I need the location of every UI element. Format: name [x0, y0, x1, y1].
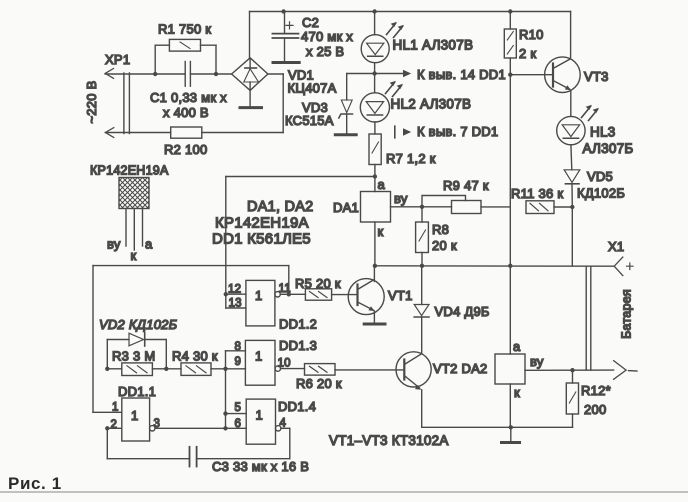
svg-text:4: 4: [280, 418, 287, 430]
node R8 rail: [420, 264, 424, 268]
wire HL1 to node: [374, 63, 376, 93]
svg-text:10: 10: [278, 358, 291, 370]
svg-text:DD1.1: DD1.1: [118, 384, 156, 399]
transistor VT2: [335, 352, 431, 428]
wire VT3 emitter to HL3: [570, 91, 572, 117]
svg-text:200: 200: [584, 402, 606, 417]
svg-text:VT3: VT3: [584, 69, 609, 84]
ground VD3: [335, 133, 356, 136]
resistor R11: [526, 201, 572, 214]
capacitor C2: [272, 12, 298, 62]
wire DA2 vy to X1: [525, 369, 614, 371]
connector X1 body lines: [586, 266, 591, 370]
wire DD1.1 pin2 to C3: [107, 428, 189, 458]
svg-text:Батарея: Батарея: [620, 289, 634, 339]
wire bottom AC line: [105, 132, 170, 134]
svg-text:ву: ву: [530, 354, 544, 369]
tap to DD1 pin14: [375, 70, 412, 77]
svg-text:VT1: VT1: [388, 288, 413, 303]
ground VT1: [364, 323, 385, 326]
node VD5 R11: [570, 205, 574, 209]
node bus pin6: [223, 426, 227, 430]
svg-text:DD1.2: DD1.2: [279, 317, 317, 332]
svg-text:к: к: [131, 248, 137, 263]
wire input bus DD1.3 DD1.4: [226, 351, 247, 429]
svg-text:R12*: R12*: [581, 383, 611, 398]
LED HL3: [557, 105, 599, 145]
resistor R10: [504, 12, 516, 75]
wire DD1.4 out to C3: [197, 428, 290, 458]
svg-text:VT1–VT3 КТ3102А: VT1–VT3 КТ3102А: [329, 433, 449, 448]
svg-text:HL3: HL3: [590, 125, 616, 140]
node a DA1: [373, 174, 377, 178]
svg-text:КР142ЕН19А: КР142ЕН19А: [90, 164, 169, 178]
gate DD1.2: [226, 280, 289, 326]
node VT3 base column: [508, 73, 512, 77]
svg-text:а: а: [378, 177, 386, 192]
wire top supply rail: [250, 11, 571, 13]
resistor R2: [171, 127, 202, 138]
diode VD2: [107, 333, 166, 369]
node R10 tap: [508, 9, 512, 13]
wire column R10 to R9R11 to rail: [509, 75, 511, 266]
shunt regulator DA1: [361, 177, 423, 266]
node R1 right: [214, 72, 218, 76]
node R4 bus: [223, 367, 227, 371]
node DD1.2 inputs: [224, 292, 228, 296]
package drawing KR142EN19A: [119, 178, 149, 251]
svg-text:6: 6: [235, 418, 242, 430]
svg-text:C2: C2: [302, 15, 319, 30]
svg-text:2: 2: [111, 419, 118, 431]
svg-text:R8: R8: [432, 222, 449, 237]
svg-text:КС515А: КС515А: [285, 113, 334, 128]
wire top AC line: [105, 73, 185, 75]
ground C2: [273, 61, 299, 64]
node R1 left: [153, 72, 157, 76]
svg-text:х 25 В: х 25 В: [306, 44, 344, 59]
svg-text:1: 1: [255, 288, 262, 303]
svg-text:АЛ307Б: АЛ307Б: [583, 141, 634, 156]
gate DD1.4: [246, 399, 290, 444]
svg-text:R9 47 к: R9 47 к: [443, 178, 489, 193]
trimmer resistor R9: [422, 196, 510, 214]
svg-text:R3 3 М: R3 3 М: [112, 349, 155, 364]
bridge rectifier VD1: [232, 58, 268, 91]
svg-text:КР142ЕН19А: КР142ЕН19А: [215, 215, 309, 232]
resistor R6: [305, 364, 336, 376]
resistor R3: [107, 363, 166, 376]
connector X1 plus contact: [614, 257, 633, 276]
svg-text:R1 750 к: R1 750 к: [158, 22, 211, 37]
svg-text:ву: ву: [394, 191, 408, 206]
svg-text:к: к: [514, 385, 520, 400]
diode VD4: [414, 266, 429, 354]
node k DA1 rail: [373, 264, 377, 268]
svg-text:9: 9: [235, 356, 242, 368]
svg-text:R5 20 к: R5 20 к: [295, 276, 341, 291]
ground DA2: [502, 427, 520, 442]
wire bottom rail: [422, 426, 573, 428]
diode VD5: [564, 145, 580, 207]
svg-text:К выв. 7 DD1: К выв. 7 DD1: [417, 124, 498, 139]
svg-text:DD1.3: DD1.3: [279, 338, 317, 353]
svg-text:R4 30 к: R4 30 к: [172, 349, 218, 364]
node DD1.1 pin2: [105, 426, 109, 430]
node column rail: [508, 264, 512, 268]
svg-text:VD5: VD5: [587, 169, 613, 184]
node DA2 k ground: [509, 425, 513, 429]
svg-text:DD1.4: DD1.4: [278, 399, 316, 414]
tap to DD1 pin7: [395, 126, 411, 138]
resistor R8: [416, 207, 429, 266]
svg-text:1: 1: [255, 349, 262, 364]
node DA1 vy R8 R9: [420, 205, 424, 209]
svg-text:R2 100: R2 100: [164, 142, 207, 157]
node bus pin5: [223, 411, 227, 415]
gate DD1.1: [107, 398, 246, 441]
svg-text:12: 12: [228, 284, 241, 296]
svg-text:С3 33 мк х 16 В: С3 33 мк х 16 В: [212, 459, 309, 474]
svg-text:1: 1: [112, 402, 119, 414]
svg-text:2 к: 2 к: [519, 46, 536, 61]
wire bottom AC to bridge: [202, 74, 283, 133]
svg-text:ву: ву: [107, 237, 121, 252]
svg-text:8: 8: [235, 341, 242, 353]
gate DD1.3: [245, 340, 304, 385]
resistor R4: [166, 363, 225, 376]
wire middle rail: [375, 265, 614, 267]
svg-text:DA1: DA1: [333, 200, 359, 215]
svg-text:а: а: [513, 339, 521, 354]
shunt regulator DA2: [495, 266, 525, 428]
LED HL2: [360, 81, 403, 122]
capacitor C1: [185, 62, 190, 87]
svg-text:R10: R10: [519, 27, 544, 42]
resistor R5: [289, 289, 332, 300]
svg-text:КД102Б: КД102Б: [577, 186, 625, 201]
wire top AC line right of C1: [190, 73, 231, 75]
svg-text:R7 1,2 к: R7 1,2 к: [386, 151, 436, 166]
svg-text:5: 5: [235, 402, 242, 414]
svg-text:1: 1: [256, 408, 263, 423]
svg-text:R11 36 к: R11 36 к: [511, 186, 563, 201]
resistor R12: [566, 370, 578, 427]
svg-text:3: 3: [154, 418, 161, 430]
svg-text:C1 0,33 мк х: C1 0,33 мк х: [150, 90, 227, 105]
svg-text:а: а: [145, 237, 153, 252]
svg-text:DA1, DA2: DA1, DA2: [247, 199, 313, 215]
wire a to DD1.2 inputs: [226, 177, 375, 295]
connector X1 minus contact: [614, 361, 637, 380]
svg-text:к: к: [378, 224, 384, 239]
wire VD5 node down to rail: [571, 207, 573, 266]
svg-text:DD1 К561ЛЕ5: DD1 К561ЛЕ5: [212, 231, 311, 248]
svg-text:VD4 Д9Б: VD4 Д9Б: [435, 304, 490, 319]
svg-text:470 мк х: 470 мк х: [301, 29, 353, 44]
page rule: [0, 491, 688, 493]
wire bridge plus up: [249, 12, 251, 58]
resistor R7: [369, 122, 381, 177]
node DD1.2 out: [287, 292, 291, 296]
svg-text:К выв. 14 DD1: К выв. 14 DD1: [417, 67, 506, 82]
svg-text:VD2 КД102Б: VD2 КД102Б: [99, 317, 178, 332]
LED HL1: [361, 12, 404, 63]
resistor R1: [155, 39, 216, 74]
node R3 left: [105, 367, 109, 371]
node R3 R4: [164, 367, 168, 371]
capacitor C3: [190, 447, 197, 467]
svg-text:КЦ407А: КЦ407А: [288, 81, 337, 96]
svg-text:~220 В: ~220 В: [84, 80, 99, 123]
ground bridge: [240, 106, 262, 109]
svg-text:XP1: XP1: [105, 52, 130, 67]
node R12 tap: [570, 368, 574, 372]
connector XP1: [105, 69, 129, 138]
wire bridge minus down: [249, 90, 251, 106]
svg-text:VT2 DA2: VT2 DA2: [433, 361, 488, 376]
transistor VT3: [510, 57, 580, 93]
svg-text:HL2 АЛ307В: HL2 АЛ307В: [391, 97, 472, 112]
wire DD1.2 out up to left rail: [93, 266, 289, 413]
label figure caption: [8, 474, 62, 494]
node C2 tap: [281, 9, 285, 13]
wire rail to VT3 collector: [570, 12, 572, 59]
node HL1 HL2 junction: [372, 71, 376, 75]
svg-text:X1: X1: [608, 239, 624, 254]
svg-text:HL1 АЛ307В: HL1 АЛ307В: [393, 38, 474, 53]
node HL1 tap: [372, 9, 376, 13]
svg-text:1: 1: [131, 408, 138, 423]
transistor VT1: [332, 266, 385, 323]
svg-text:20 к: 20 к: [432, 238, 457, 253]
svg-text:х 400 В: х 400 В: [163, 105, 209, 120]
svg-text:13: 13: [229, 298, 242, 310]
zener diode VD3: [339, 74, 375, 135]
svg-text:R6 20 к: R6 20 к: [296, 376, 342, 391]
